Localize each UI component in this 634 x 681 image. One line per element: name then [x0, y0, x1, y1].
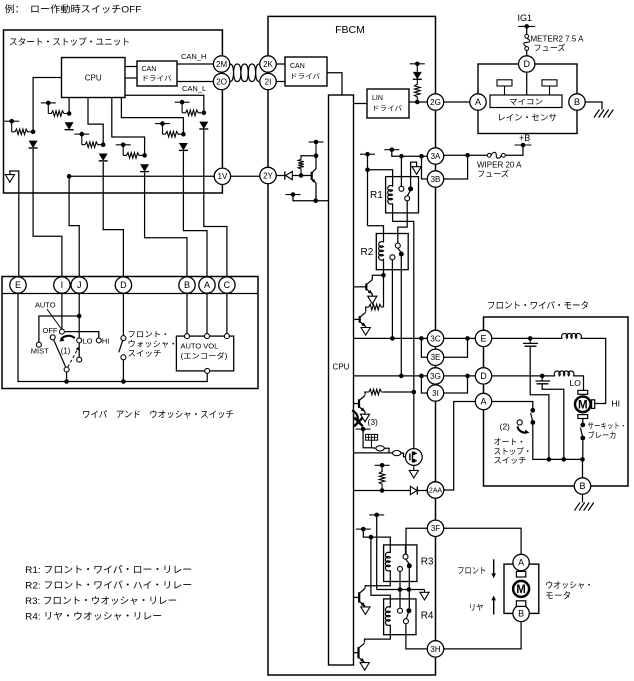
- wire A col in box: [206, 294, 208, 334]
- power tick cell5: [155, 123, 170, 125]
- fuse METER2: [524, 34, 530, 50]
- wire AUTO-HI link: [65, 332, 99, 338]
- svg-text:3C: 3C: [430, 334, 440, 343]
- ferrite bead oval 1: [376, 446, 384, 451]
- contact LO: [77, 338, 82, 343]
- contact R3 common: [403, 554, 408, 559]
- contact washer top: [121, 336, 126, 341]
- power tick +B: [515, 144, 532, 146]
- resistor 2Y: [298, 158, 304, 171]
- contact LO2: [77, 357, 82, 362]
- svg-text:3F: 3F: [431, 524, 440, 533]
- diode cell2: [65, 122, 74, 129]
- connector E motor: [475, 330, 491, 346]
- power tick 2AA: [375, 464, 390, 466]
- wire R4 out to 3H: [406, 624, 427, 649]
- blade R4: [406, 613, 408, 619]
- wire IG1-fuse: [526, 26, 528, 34]
- wire Q4 emitter stub: [364, 605, 366, 608]
- pin encoder C: [224, 334, 229, 339]
- transistor Q3: [354, 396, 366, 412]
- CPU U1 box: [62, 58, 126, 98]
- wire CPU-CAN 1: [125, 66, 137, 68]
- motor M2 tab top: [516, 571, 525, 577]
- svg-text:2M: 2M: [216, 60, 227, 69]
- contact R1 NO: [399, 186, 404, 191]
- svg-text:CAN: CAN: [290, 63, 305, 70]
- transistor Q2: [354, 312, 366, 326]
- rain sensor box: [478, 64, 577, 134]
- svg-text:2G: 2G: [430, 98, 441, 107]
- svg-text:(3): (3): [368, 417, 379, 427]
- wire feed cell1: [33, 78, 61, 132]
- diode cell4: [140, 164, 149, 171]
- component noise filter box: [366, 434, 378, 440]
- svg-text:C: C: [224, 280, 231, 290]
- relay R2 box: [376, 234, 408, 270]
- wire R3 coil feed: [363, 529, 390, 553]
- wire 3C line: [354, 337, 428, 339]
- svg-text:2O: 2O: [216, 77, 227, 86]
- svg-text:D: D: [120, 280, 127, 290]
- wire 2K-CAN: [276, 63, 285, 65]
- wire J column in box: [78, 294, 80, 338]
- junction pivot bus: [64, 379, 69, 384]
- resistor 2G pullup: [415, 79, 421, 102]
- diode 2AA (points right): [410, 486, 417, 494]
- junction rail R3NO: [407, 587, 412, 592]
- wire 3G line: [354, 375, 428, 377]
- arc (2) arrow: [518, 426, 528, 432]
- wire E-cap path: [529, 338, 531, 343]
- connector 3G: [427, 368, 443, 384]
- diode cell1: [29, 141, 38, 148]
- contact washer bottom: [121, 355, 126, 360]
- inductor E line: [562, 333, 582, 338]
- contact R2 common: [395, 243, 400, 248]
- wire D-LO: [573, 376, 583, 391]
- contact R1 NC: [408, 186, 413, 191]
- svg-text:ウオッシャ・: ウオッシャ・: [545, 580, 593, 590]
- relay R1 box: [386, 177, 419, 213]
- contact MIST: [36, 342, 41, 347]
- wire R3 coil return: [365, 570, 390, 588]
- svg-text:CAN: CAN: [142, 66, 157, 73]
- connector 2AA: [427, 482, 443, 498]
- svg-text:R4: リヤ・ウオッシャ・リレー: R4: リヤ・ウオッシャ・リレー: [25, 612, 162, 623]
- transistor Q1: [354, 280, 373, 294]
- wire J to MIST: [39, 316, 79, 342]
- wire breaker down: [582, 440, 584, 459]
- resistor cell5: [163, 131, 182, 137]
- connector 2K: [260, 56, 276, 72]
- svg-text:LO: LO: [570, 378, 582, 388]
- junction J-MIST: [77, 314, 82, 319]
- junction rail R3NC: [398, 587, 403, 592]
- wire R3a drop: [376, 515, 378, 590]
- contact R4 NO: [406, 608, 411, 613]
- power tick R3a: [369, 514, 384, 516]
- diode 2Y (points left): [286, 171, 293, 179]
- wire B-ground motor: [582, 494, 584, 502]
- wire col J: [69, 176, 79, 277]
- connector 2G: [427, 94, 443, 110]
- wire gate path4: [401, 453, 406, 457]
- CAN driver box unit: [137, 61, 177, 86]
- wire gate tick path: [363, 429, 371, 448]
- connector 2O: [213, 73, 229, 89]
- svg-text:R3: R3: [421, 557, 434, 568]
- svg-text:A: A: [480, 397, 486, 407]
- wire R1 feed drop: [367, 154, 369, 226]
- wire tick-coll 2Y: [315, 142, 317, 156]
- ground arrow R1: [412, 167, 421, 175]
- svg-text:ウォッシャ・: ウォッシャ・: [128, 340, 178, 349]
- connector B motor: [574, 478, 590, 494]
- coil R1: [388, 185, 393, 204]
- wire sensor left stem: [504, 86, 506, 95]
- svg-text:HI: HI: [612, 399, 621, 409]
- arrowhead rotate-1: [59, 337, 64, 341]
- junction 3C-R2NC: [390, 336, 395, 341]
- svg-text:J: J: [77, 280, 82, 290]
- connector I switch: [54, 277, 70, 293]
- connector strip line: [2, 293, 258, 295]
- wire Q1 collector: [372, 275, 383, 280]
- wire E line: [492, 337, 563, 339]
- pin encoder B: [185, 334, 190, 339]
- wire E-HI: [581, 338, 606, 403]
- svg-text:R2: R2: [361, 247, 374, 258]
- motor M2: [513, 581, 529, 597]
- wire R2-NO to 3G: [400, 257, 402, 376]
- svg-text:2AA: 2AA: [429, 488, 443, 495]
- svg-text:2I: 2I: [265, 77, 272, 86]
- connector A rain: [470, 94, 486, 110]
- wire Q3 collector: [365, 392, 367, 395]
- connector 2M: [213, 56, 229, 72]
- wire res-base: [300, 171, 302, 176]
- wire Q3 emitter stub: [364, 412, 366, 415]
- driver FET U3 in circle: [405, 449, 422, 466]
- svg-text:AUTO VOL: AUTO VOL: [181, 342, 219, 351]
- svg-text:フューズ: フューズ: [477, 169, 509, 179]
- wire feed cell2: [68, 98, 70, 114]
- wire CAN_H: [177, 63, 213, 65]
- wire R2ret-resistor: [383, 275, 385, 307]
- resistor cell2: [48, 111, 67, 117]
- svg-text:マイコン: マイコン: [509, 98, 543, 107]
- wire col B: [145, 173, 187, 278]
- wire D-cap path: [541, 376, 543, 381]
- transistor QY npn: [311, 172, 313, 180]
- svg-text:WIPER 20 A: WIPER 20 A: [477, 161, 522, 170]
- ground arrow Q2: [361, 328, 370, 336]
- resistor 2AA pullup: [379, 465, 385, 490]
- power tick cell1: [4, 120, 19, 122]
- power tick 2Y: [309, 141, 324, 143]
- wire sensor right stem: [549, 86, 551, 95]
- blade breaker: [580, 428, 582, 437]
- wire D-micom: [526, 72, 528, 95]
- chassis ground motor: [575, 503, 594, 511]
- contact R1 common: [405, 196, 410, 201]
- wire CPU-LIN: [354, 103, 368, 105]
- junction R1/R2 feed: [365, 168, 370, 173]
- annotation X (3): [354, 418, 363, 427]
- wire 3G-3I jumper: [421, 376, 427, 393]
- svg-text:A: A: [518, 558, 524, 568]
- blade R1: [407, 191, 410, 196]
- junction cell6: [202, 111, 207, 116]
- wire tick drop cell6: [181, 102, 183, 113]
- svg-text:ブレーカ: ブレーカ: [588, 430, 617, 440]
- wire gate path2: [372, 447, 377, 450]
- wire R1 coil feed: [368, 170, 393, 187]
- wire QY emitter to CPU: [293, 195, 329, 201]
- svg-text:ドライバ: ドライバ: [372, 105, 402, 113]
- power tick cell3: [74, 133, 89, 135]
- wire tick drop cell2: [47, 103, 49, 114]
- wire A-autostop: [492, 402, 533, 409]
- svg-text:スタート・ストップ・ユニット: スタート・ストップ・ユニット: [9, 37, 130, 47]
- wire R1 out to R2: [398, 201, 407, 243]
- junction 2AA pullup: [380, 488, 385, 493]
- arrowhead rear: [491, 596, 496, 601]
- svg-text:CPU: CPU: [333, 363, 350, 372]
- svg-text:3H: 3H: [430, 645, 440, 654]
- junction 2Y base: [299, 173, 304, 178]
- junction E-cap: [528, 336, 533, 341]
- wire 3F line: [406, 528, 427, 556]
- junction R2 return: [381, 273, 386, 278]
- ground arrow unit: [5, 175, 14, 183]
- wire 3G-D: [444, 375, 476, 377]
- relay R4 box: [384, 599, 416, 635]
- wire 3A out: [444, 154, 488, 156]
- wire 3E out: [444, 338, 468, 357]
- motor M2 tab bottom: [516, 601, 525, 607]
- resistor Q2: [367, 304, 384, 310]
- svg-text:フューズ: フューズ: [534, 43, 566, 53]
- connector 3F: [427, 520, 443, 536]
- junction cell5: [181, 132, 186, 137]
- svg-text:R1: R1: [370, 190, 383, 201]
- inductor D line: [554, 371, 574, 376]
- junction cell2: [67, 111, 72, 116]
- motor M1 bracket bottom: [578, 415, 588, 419]
- connector D switch: [115, 277, 131, 293]
- wire B col in box: [186, 294, 188, 334]
- svg-text:3I: 3I: [432, 389, 439, 398]
- power tick IG1: [518, 25, 535, 27]
- washer motor frame: [504, 564, 539, 613]
- svg-text:CPU: CPU: [85, 74, 102, 83]
- svg-text:MIST: MIST: [31, 347, 49, 356]
- wire pivot to bus: [66, 372, 68, 382]
- wire R4 coil return: [365, 625, 391, 643]
- resistor Q3: [367, 389, 384, 395]
- svg-text:B: B: [184, 280, 190, 290]
- wire E-cap return: [530, 346, 549, 459]
- junction 3G-3I: [419, 374, 424, 379]
- blade autostop: [531, 413, 533, 421]
- svg-text:スイッチ: スイッチ: [494, 456, 527, 465]
- motor M1 bracket top: [578, 390, 588, 394]
- power tick R1: [360, 153, 375, 155]
- micom box: [490, 95, 562, 108]
- sensor element right: [542, 80, 557, 86]
- wire col A: [183, 151, 207, 277]
- ground arrow relay rail: [420, 592, 429, 600]
- transistor Q5: [354, 643, 365, 662]
- junction 3C-3E out: [465, 336, 470, 341]
- wire washer to bus: [122, 360, 124, 382]
- wire 1V-2Y: [231, 175, 260, 177]
- svg-text:D: D: [523, 59, 530, 69]
- svg-text:1V: 1V: [218, 172, 228, 181]
- svg-text:3B: 3B: [431, 175, 441, 184]
- svg-text:M: M: [578, 400, 588, 412]
- wire feed cell4: [112, 98, 145, 156]
- wire tick drop cell5: [162, 124, 164, 135]
- twisted pair CAN wires: [230, 64, 259, 82]
- junction capD rail: [562, 457, 567, 462]
- ground arrow Q5: [360, 663, 369, 671]
- contact R2 NC: [390, 255, 395, 260]
- connector A motor: [475, 393, 491, 409]
- wire 2G-A: [444, 101, 470, 103]
- wire bus bottom: [18, 294, 207, 382]
- svg-text:E: E: [480, 334, 486, 344]
- connector 3I: [427, 385, 443, 401]
- wire 3A-3B jumper: [422, 156, 428, 179]
- wire R1 NC to ground arrow: [411, 162, 417, 186]
- pivot (2) arrow: [517, 420, 522, 425]
- connector A switch: [199, 277, 215, 293]
- arrow front shaft: [493, 559, 495, 574]
- contact R2 NO: [399, 252, 404, 257]
- arrowhead QY emitter: [312, 179, 316, 183]
- svg-text:スイッチ: スイッチ: [128, 349, 162, 358]
- wire tick drop cell4: [122, 145, 124, 156]
- junction 3A-3B: [419, 154, 424, 159]
- wire tick-diode 2G: [416, 64, 418, 72]
- wire CPU gate line: [354, 452, 393, 454]
- svg-text:3E: 3E: [431, 353, 441, 362]
- junction cell3: [101, 142, 106, 147]
- wire Q2 emitter stub: [365, 327, 367, 328]
- wire fuse-D: [526, 50, 528, 56]
- power tick 3A rail: [384, 149, 399, 151]
- svg-text:LIN: LIN: [372, 95, 383, 102]
- svg-text:リヤ: リヤ: [469, 603, 484, 613]
- arrowhead front: [491, 573, 496, 578]
- junction QY emitter: [313, 198, 318, 203]
- contact R3 NO: [407, 563, 412, 568]
- motor M1: [575, 397, 591, 413]
- connector 3C: [427, 330, 443, 346]
- wire R3NC-R4common: [399, 571, 401, 610]
- contact R4 out: [403, 619, 408, 624]
- wire 3C-E: [444, 337, 476, 339]
- connector J switch: [71, 277, 87, 293]
- svg-text:+B: +B: [519, 133, 530, 143]
- junction LIN-2G: [415, 100, 420, 105]
- wire col D: [103, 162, 123, 277]
- connector 3H: [427, 641, 443, 657]
- wire CAN_L: [177, 81, 213, 83]
- svg-text:3A: 3A: [431, 152, 441, 161]
- contact breaker bottom: [580, 436, 585, 441]
- wire contact drop R1: [400, 156, 402, 186]
- wire R1 coil return: [393, 204, 414, 449]
- wire feed cell3: [88, 98, 103, 145]
- connector 3A: [427, 148, 443, 164]
- svg-text:LO: LO: [83, 337, 93, 346]
- connector C switch: [219, 277, 235, 293]
- wire Q5 emitter stub: [364, 661, 366, 663]
- contact autostop top: [530, 408, 535, 413]
- wire R3NO-R4NO: [408, 568, 410, 610]
- connector 1V: [214, 168, 230, 184]
- svg-text:METER2 7.5 A: METER2 7.5 A: [531, 35, 585, 44]
- wire 3B out: [444, 155, 468, 179]
- wire tick drop cell3: [81, 134, 83, 145]
- svg-text:レイン・センサ: レイン・センサ: [497, 113, 557, 123]
- wire M1 to breaker: [582, 419, 584, 423]
- svg-text:R4: R4: [421, 611, 434, 622]
- wire E-col jog: [10, 171, 19, 277]
- svg-text:CAN_L: CAN_L: [182, 84, 206, 93]
- power tick R3b: [356, 528, 371, 530]
- junction 1V-cell2: [67, 174, 72, 179]
- arrow rotate-1 arc: [61, 336, 75, 340]
- blade R2: [398, 248, 401, 252]
- wire I to AUTO contact: [61, 294, 63, 330]
- coil R3: [385, 552, 390, 571]
- annotation arc (3): [352, 411, 358, 421]
- svg-text:OFF: OFF: [43, 326, 58, 335]
- wire LO stub: [78, 343, 80, 357]
- power tick 2G pullup: [410, 63, 425, 65]
- connector 2I: [260, 73, 276, 89]
- connector 3E: [427, 349, 443, 365]
- junction 3G-R2NO: [399, 374, 404, 379]
- connector 2Y: [260, 167, 276, 183]
- wire feed cell5: [121, 98, 183, 135]
- svg-text:例： ロー作動時スイッチOFF: 例： ロー作動時スイッチOFF: [5, 4, 142, 16]
- CPU U2 tall box: [329, 95, 354, 665]
- wire FET source: [413, 465, 415, 470]
- svg-text:B: B: [574, 97, 580, 107]
- svg-text:2Y: 2Y: [263, 171, 273, 180]
- AUTO VOL encoder box: [176, 336, 233, 371]
- wire R2-NC to 3C: [391, 260, 393, 339]
- wire col C: [204, 130, 227, 278]
- blade rotary dashed alt: [68, 348, 79, 367]
- connector A washer: [513, 554, 529, 570]
- junction breaker rail: [580, 457, 585, 462]
- svg-text:A: A: [204, 280, 210, 290]
- wire LIN-2G: [409, 101, 427, 103]
- svg-text:オート・: オート・: [494, 438, 526, 447]
- svg-text:3G: 3G: [430, 372, 441, 381]
- start-stop unit box: [4, 30, 223, 193]
- pin encoder A: [205, 334, 210, 339]
- contact autostop bottom: [530, 420, 535, 425]
- svg-text:M: M: [516, 584, 526, 596]
